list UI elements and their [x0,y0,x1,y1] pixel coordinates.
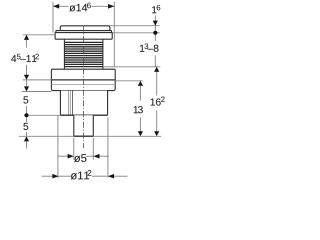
dim o11.2 left tail [42,175,53,177]
dim dot at cylinder bottom [24,113,28,117]
ref line spigot bottom (long) [19,135,162,137]
dim 4.5-11.2 line upper segment [26,40,28,48]
dim 5a down arrow [24,86,29,91]
ref line flange bottom left [22,91,52,93]
dim o5 mid segment [87,155,94,157]
dim 4.5-11.2 label [11,55,16,62]
cap rim [55,33,112,40]
dim 1.6 to 1.3-8 connector [154,26,156,41]
dim o5 right arrow [93,154,99,159]
dim o11.2 right tail [114,175,128,177]
dim 16.2 bottom arrow [154,131,159,136]
dim o11.2 label [71,173,77,179]
cap mid step [56,31,112,33]
dim 16.2 label [151,98,155,105]
dim o14.6 line right segment [92,5,115,7]
dim o11.2 right extension line [107,117,109,177]
dim 5b tail below arrow [26,141,28,148]
dim o11.2 right arrow [108,174,114,179]
dim 4.5-11.2 bottom arrow [24,75,29,80]
inner detail line a [68,91,70,116]
dim o14.6 right extension line [113,2,115,67]
dim dot at rim line [153,31,157,35]
dim o14.6 line left segment [53,5,69,7]
connector between arrows [26,80,28,87]
dim 5a line to dot [26,106,28,114]
dim o14.6 left arrow [53,4,59,9]
dim 4.5-11.2 line lower segment [26,65,28,75]
dim o11.2 left arrow [52,174,58,179]
body cylinder o11.2 [60,91,107,116]
dim 5b bottom arrow [24,136,29,141]
bottom spigot o5 [74,115,94,136]
flange seam line (wall plane) [51,79,115,81]
dim 5b line from dot [26,117,28,122]
ref line rim left [23,34,55,36]
ref line flange seam left [23,79,52,81]
dim 13 line upper segment [139,86,141,101]
dim 5b label [23,123,28,130]
dim o11.2 line right segment [92,175,108,177]
dim 4.5-11.2 top arrow [24,35,29,40]
centerline [83,25,85,148]
dim 1.3-8 label [140,45,144,52]
ref line rim top right [112,32,159,34]
ref line cap top right [110,25,160,27]
flange body [51,69,115,90]
dim 13 line lower segment [139,118,141,132]
dim o14.6 right arrow [108,4,114,9]
inner detail line b [69,91,71,116]
dim 13 label [134,106,138,113]
dim o5 left extension line [73,138,75,160]
dim o5 left tail [58,155,68,157]
spigot bottom dark segment [74,135,94,137]
push button cap top plate [60,26,110,33]
dim 5b line lower [26,132,28,136]
ref line threads bottom right [104,66,161,68]
inner detail line c [72,91,74,116]
threaded neck left edge [63,39,65,69]
dim o11.2 line left segment [59,175,71,177]
dim 13 top arrow [138,81,143,86]
dim o14.6 label [69,5,75,11]
dim o5 right extension line [92,138,94,160]
dim 16.2 line lower segment [156,111,158,132]
ref line flange seam right [115,80,143,82]
dim 5a label [23,96,28,103]
cylinder bottom line [60,114,107,116]
flange lower thin line [51,84,115,86]
threaded neck right edge [102,39,104,69]
dim 16.2 top arrow [154,67,159,72]
dim 1.6 label [152,6,156,13]
dim o5 label [74,156,80,162]
dim o5 right tail [100,155,110,157]
dim 13 bottom arrow [138,131,143,136]
dim o5 left arrow [68,154,74,159]
dim 1.3-8 lower line [154,56,156,67]
dim 1.6 down arrow [153,21,158,26]
dim o14.6 left extension line [52,2,54,33]
dim 1.6 arrow tail [154,16,156,21]
ref line cylinder bottom left [24,114,60,116]
dim o11.2 left extension line [57,115,59,178]
thread bars [64,42,103,66]
dim 16.2 line upper segment [156,72,158,96]
